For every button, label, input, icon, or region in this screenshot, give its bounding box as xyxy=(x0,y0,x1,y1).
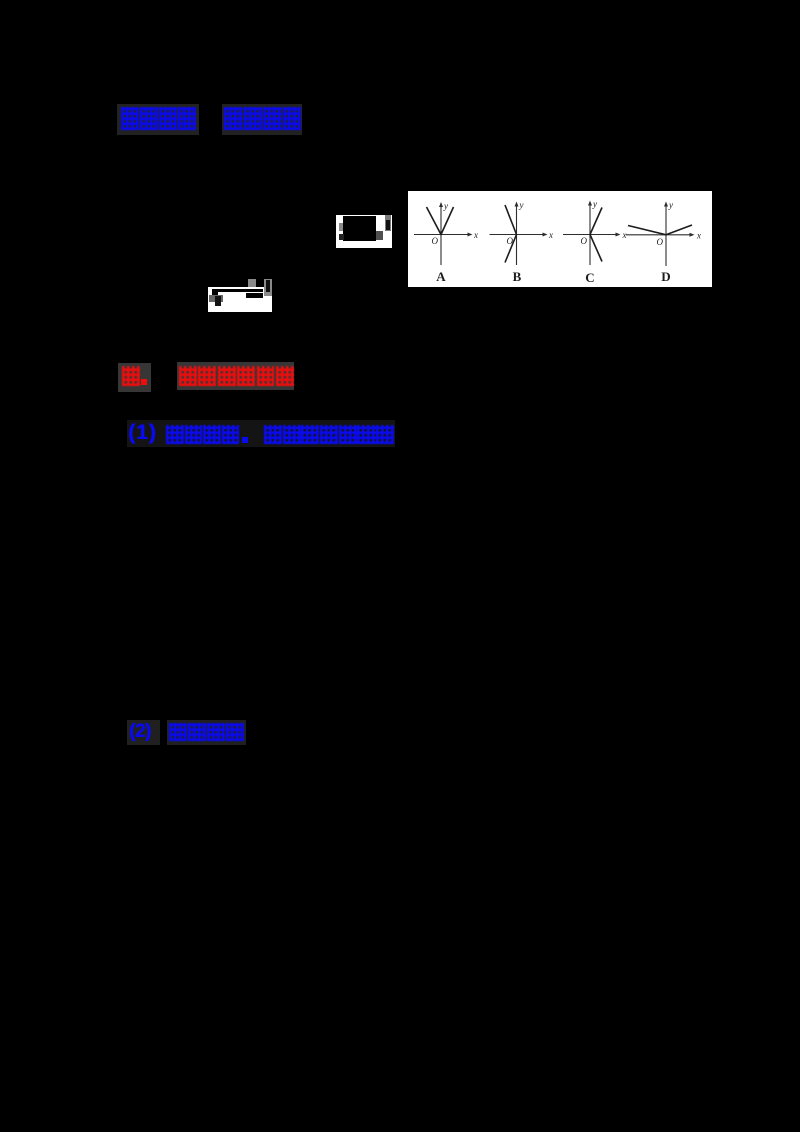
svg-text:D: D xyxy=(661,269,670,284)
formula image patch 1 xyxy=(336,215,392,248)
svg-text:B: B xyxy=(513,269,522,284)
answer-options figure panel (graphs A,B,C,D) xyxy=(408,191,712,287)
sub-heading (2) numeral xyxy=(129,721,151,743)
red heading numeral (CJK glyph block + comma) xyxy=(122,366,140,386)
highlight box behind red heading text xyxy=(177,362,294,390)
graph A rays (V up) xyxy=(427,207,454,235)
arrowheads x xyxy=(468,233,473,237)
sub-heading (2) text (4 CJK glyph blocks) xyxy=(169,723,244,741)
sub-heading (1) second phrase (7 CJK glyph blocks) xyxy=(264,425,394,444)
graph B rays (opening left) xyxy=(505,205,517,263)
svg-text:x: x xyxy=(548,230,553,240)
graph B axes xyxy=(490,234,546,236)
svg-text:x: x xyxy=(473,230,478,240)
faint highlight behind sub-heading (1) xyxy=(127,420,395,447)
sub-heading (1) numeral xyxy=(128,421,157,445)
svg-text:O: O xyxy=(581,236,588,246)
svg-text:y: y xyxy=(592,199,597,209)
highlight behind sub-heading (2) numeral xyxy=(127,720,160,745)
highlight box behind red heading numeral xyxy=(118,363,151,392)
svg-text:y: y xyxy=(519,200,524,210)
svg-text:C: C xyxy=(585,270,594,285)
graph D axes xyxy=(626,234,692,236)
svg-text:O: O xyxy=(432,236,439,246)
graph C rays (opening right) xyxy=(590,208,602,262)
highlight box behind title group 2 xyxy=(222,104,302,135)
arrowheads y xyxy=(439,202,443,207)
graph A axes xyxy=(414,234,470,236)
formula image patch 2 xyxy=(208,279,272,312)
svg-text:O: O xyxy=(507,236,514,246)
svg-text:O: O xyxy=(657,237,664,247)
red heading text (6 CJK glyph blocks) xyxy=(179,366,294,386)
svg-text:y: y xyxy=(443,201,448,211)
svg-text:x: x xyxy=(622,230,627,240)
blue chapter title group 2 (4 CJK glyph blocks) xyxy=(224,107,301,130)
graph D rays (wide shallow V) xyxy=(628,225,692,235)
graph C axes xyxy=(563,234,618,236)
svg-text:y: y xyxy=(668,200,673,210)
highlight behind sub-heading (2) text xyxy=(167,720,246,745)
sub-heading (1) first phrase (4 CJK glyph blocks + comma) xyxy=(166,425,239,444)
highlight box behind title group 1 xyxy=(117,104,199,135)
blue chapter title group 1 (4 CJK glyph blocks) xyxy=(121,107,196,130)
svg-text:x: x xyxy=(696,230,701,240)
svg-text:A: A xyxy=(436,269,446,284)
